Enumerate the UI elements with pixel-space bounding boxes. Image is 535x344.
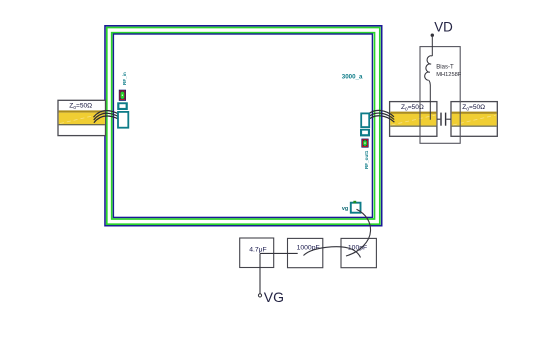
svg-text:Bias-T: Bias-T bbox=[436, 65, 454, 71]
capacitor C4 lead right bbox=[446, 118, 451, 120]
drain port pin P2 (navy/red/green) bbox=[361, 139, 368, 148]
gate bias pin box (teal outline) bbox=[351, 203, 361, 213]
capacitor C2 box 1000pF bbox=[288, 238, 323, 267]
VG node circle bbox=[258, 294, 261, 297]
port P2 transmission line box (right, drain side) bbox=[390, 102, 437, 137]
svg-text:RF_out1: RF_out1 bbox=[364, 150, 369, 169]
wire gate bias pin to C3 (big arc) bbox=[346, 209, 371, 256]
wire bundle drain pin to port P2 (3 arcs) bbox=[365, 110, 394, 122]
gate bias pin top tab (green) bbox=[353, 201, 356, 203]
EM layout box outer navy border bbox=[105, 26, 382, 226]
capacitor C3 box 100pF bbox=[341, 238, 376, 267]
gate port pin P1 (navy/red/green) bbox=[119, 90, 126, 101]
port P1 transmission line box (left) bbox=[58, 100, 106, 135]
capacitor C1 box 4.7uF bbox=[240, 238, 274, 268]
svg-text:4.7μF: 4.7μF bbox=[249, 246, 267, 253]
EM layout box inner green border bbox=[112, 33, 375, 219]
svg-text:vg: vg bbox=[342, 206, 348, 212]
port P3 transmission line box (far right) bbox=[451, 102, 497, 137]
wire C1 to C2 bbox=[260, 252, 298, 254]
bias-T box U1 bbox=[420, 47, 460, 144]
capacitor C4 plate left bbox=[440, 113, 442, 126]
EM layout box inner navy border bbox=[113, 34, 372, 217]
EM layout box outer green border bbox=[107, 28, 380, 225]
svg-text:RF_in: RF_in bbox=[122, 72, 127, 85]
svg-text:1000pF: 1000pF bbox=[297, 245, 320, 252]
capacitor C4 plate right bbox=[445, 113, 447, 126]
wire C2 to C3 (arc) bbox=[304, 247, 361, 258]
svg-text:VD: VD bbox=[434, 19, 453, 34]
VD node dot bbox=[431, 34, 434, 37]
drain pin body box (teal outline) bbox=[361, 113, 369, 127]
wire bundle port P1 to gate pin (3 arcs) bbox=[94, 111, 124, 123]
wire C1 down to VG bbox=[259, 253, 261, 293]
wire VD to inductor bbox=[431, 37, 433, 56]
svg-text:MH1258F: MH1258F bbox=[436, 72, 461, 78]
capacitor C4 (bias-T DC block) lead left bbox=[437, 118, 440, 120]
svg-text:VG: VG bbox=[264, 289, 284, 305]
inductor L1 (bias-T coil) bbox=[425, 56, 433, 81]
gate pin connector block (teal with white bar) bbox=[117, 102, 128, 110]
svg-text:3000_a: 3000_a bbox=[342, 73, 363, 80]
gate pin body box (teal outline) bbox=[118, 112, 128, 128]
wire inductor to microstrip P2 bbox=[429, 80, 430, 119]
drain pin connector block (teal with white bar) bbox=[360, 129, 370, 137]
